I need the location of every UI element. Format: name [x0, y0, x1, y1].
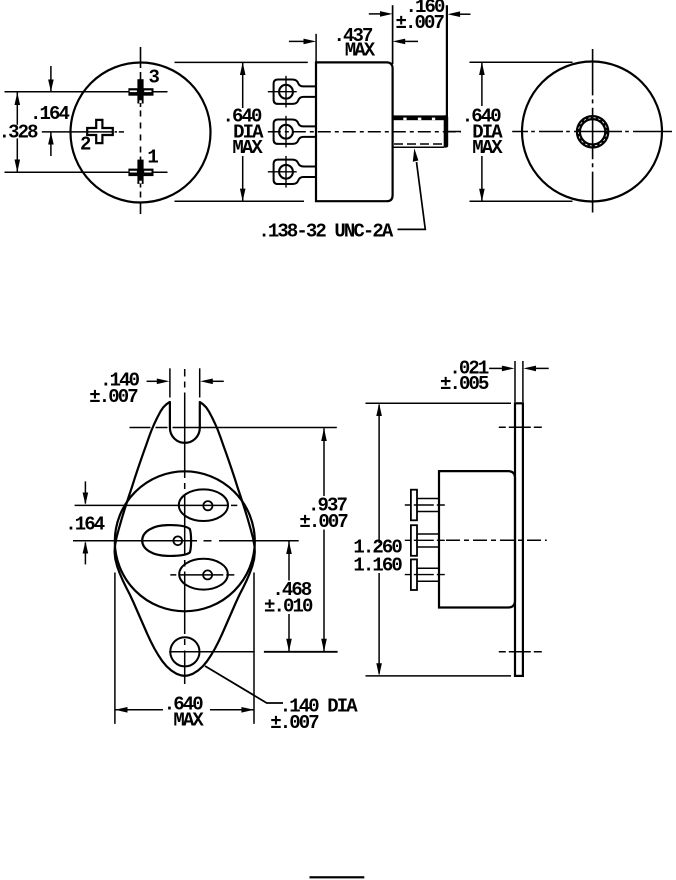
svg-text:±.007: ±.007 [89, 386, 138, 408]
svg-text:MAX: MAX [173, 709, 204, 731]
svg-text:.164: .164 [65, 514, 105, 536]
svg-text:±.007: ±.007 [270, 712, 319, 734]
svg-text:.138-32 UNC-2A: .138-32 UNC-2A [258, 220, 394, 242]
svg-text:MAX: MAX [472, 137, 503, 159]
svg-text:MAX: MAX [232, 137, 263, 159]
svg-text:±.005: ±.005 [440, 373, 489, 395]
svg-text:.328: .328 [0, 122, 38, 144]
svg-text:MAX: MAX [345, 39, 376, 61]
svg-text:3: 3 [149, 66, 160, 88]
svg-text:±.010: ±.010 [264, 595, 313, 617]
svg-text:±.007: ±.007 [299, 511, 348, 533]
svg-text:1.160: 1.160 [353, 555, 402, 577]
svg-text:±.007: ±.007 [396, 12, 445, 34]
svg-text:2: 2 [80, 133, 91, 155]
svg-text:1: 1 [147, 147, 158, 169]
